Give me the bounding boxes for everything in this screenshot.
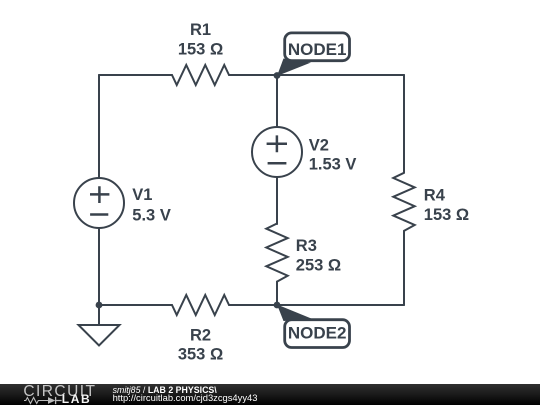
- node NODE1 junction dot: [274, 72, 281, 79]
- resistor R1: [172, 65, 229, 85]
- callout box NODE2: [285, 320, 350, 348]
- callout tail NODE1: [277, 59, 311, 77]
- footer bar: [0, 384, 540, 405]
- svg-text:153 Ω: 153 Ω: [178, 40, 223, 58]
- resistor R4: [393, 173, 414, 231]
- wire right vertical top: [403, 75, 405, 173]
- voltage source V1: [74, 178, 124, 228]
- svg-text:V2: V2: [309, 136, 329, 154]
- wire R3 to node2: [276, 282, 278, 305]
- wire top-left horizontal: [99, 74, 172, 76]
- resistor R2: [172, 295, 229, 315]
- callout box NODE1: [285, 33, 350, 61]
- svg-text:NODE2: NODE2: [288, 324, 347, 343]
- node NODE2 junction dot: [274, 302, 281, 309]
- svg-text:5.3 V: 5.3 V: [132, 206, 171, 224]
- wire top-right horizontal: [229, 74, 404, 76]
- wire bottom-left horizontal: [99, 304, 172, 306]
- ground: [79, 305, 120, 346]
- wire left vertical bottom: [98, 228, 100, 305]
- svg-text:253 Ω: 253 Ω: [296, 256, 341, 274]
- voltage source V2: [252, 127, 302, 177]
- svg-text:153 Ω: 153 Ω: [424, 206, 469, 224]
- svg-text:NODE1: NODE1: [288, 40, 347, 59]
- svg-text:LAB: LAB: [62, 393, 91, 405]
- svg-text:1.53 V: 1.53 V: [309, 156, 357, 174]
- wire right vertical bottom: [403, 231, 405, 305]
- svg-text:R1: R1: [190, 21, 211, 39]
- CircuitLab logo: [0, 384, 105, 405]
- svg-text:353 Ω: 353 Ω: [178, 346, 223, 364]
- svg-text:R4: R4: [424, 187, 446, 205]
- wire left vertical top: [98, 75, 100, 178]
- wire node1 to V2: [276, 75, 278, 127]
- svg-text:R3: R3: [296, 237, 317, 255]
- svg-text:R2: R2: [190, 326, 211, 344]
- resistor R3: [266, 224, 287, 282]
- wire V2 to R3: [276, 177, 278, 224]
- callout tail NODE2: [277, 305, 313, 322]
- svg-text:V1: V1: [132, 186, 152, 204]
- wire bottom-right horizontal: [229, 304, 404, 306]
- junction dot at ground: [96, 302, 103, 309]
